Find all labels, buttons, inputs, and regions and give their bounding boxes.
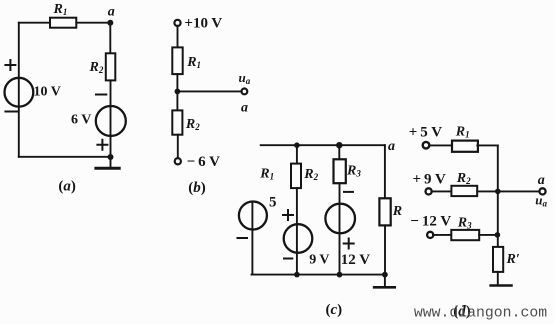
svg-text:(b): (b) [188,180,206,196]
ground bar (c) [374,286,395,289]
svg-text:www.diangon.com: www.diangon.com [414,305,547,321]
wire left side (a) [18,23,20,157]
svg-text:R2: R2 [303,167,318,182]
svg-text:R1: R1 [186,55,201,70]
wire R2 to 9V (c) [296,188,298,275]
svg-text:a: a [241,101,248,116]
ground stub (c) [384,275,386,287]
svg-text:(a): (a) [58,179,76,195]
voltage source 6V (a) circle [96,106,126,136]
svg-text:R1: R1 [259,167,274,182]
junction dot bus row2 (d) [495,189,501,195]
resistor R2 (d) box [451,186,477,196]
terminal -6V (b) [175,158,181,164]
wire R1 to R2 (b) [176,74,178,110]
resistor R2 (a) box [106,53,116,80]
resistor R2 (c) box [291,164,301,189]
svg-text:R2: R2 [456,171,471,186]
wire bottom bus (c) [252,274,385,276]
terminal a (d) [539,188,545,194]
wire R3 branch top (c) [338,145,340,159]
resistor R (c) box [379,198,390,225]
svg-text:R1: R1 [53,2,68,17]
wire terminal to R1 (b) [177,26,179,48]
voltage source 10V (a) circle [5,78,34,107]
svg-text:− 12 V: − 12 V [410,214,451,230]
svg-text:R1: R1 [455,125,470,140]
wire R3 to bus (d) [479,234,497,236]
node a (a) junction dot [107,20,113,26]
junction dot bottom R2 branch (c) [294,272,300,278]
wire R2 branch top (c) [296,145,298,163]
terminal -12V (d) [427,232,433,238]
wire terminal to R2 (d) [431,190,451,192]
svg-text:R′: R′ [506,252,520,267]
terminal +9V (d) [426,188,432,194]
svg-text:R3: R3 [346,164,361,179]
wire R2 through 6V source to bottom (a) [110,80,112,156]
svg-text:(c): (c) [326,302,343,318]
resistor R1 (b) box [172,47,182,74]
svg-text:+ 9 V: + 9 V [413,172,447,188]
junction dot top R2 branch (c) [294,142,300,148]
wire node a down to R (c) [384,145,386,198]
minus sign of 9V source (c) [284,258,292,260]
voltage source 5V (c) circle [239,202,267,230]
junction dot top R3 branch (c) [336,142,342,148]
svg-text:ua: ua [535,193,547,209]
wire bottom (a) [19,156,111,158]
svg-text:9 V: 9 V [309,252,329,267]
junction dot bottom R3 branch (c) [337,272,343,278]
resistor R2 (b) box [172,110,182,134]
resistor R3 (c) box [334,159,346,183]
svg-text:− 6 V: − 6 V [187,154,221,170]
plus sign of 6V source [97,140,107,150]
voltage source 12V (c) circle [325,204,355,234]
plus sign of 12V source (c) [344,239,354,249]
wire R2 to output terminal (d) [477,190,540,192]
wire through 5V source down (c) [251,202,253,275]
svg-text:ua: ua [239,70,251,86]
minus sign of 6V source [96,94,106,96]
ground bar (a) [96,167,119,170]
svg-text:12 V: 12 V [341,252,370,268]
resistor R1 (a) box [50,18,76,28]
plus sign of 9V source (c) [283,210,293,220]
wire top-right segment (a) [76,22,110,24]
plus sign of 10V source [5,60,15,70]
svg-text:6 V: 6 V [71,112,91,127]
wire node a down to R2 (a) [109,23,111,54]
svg-text:R: R [392,204,402,219]
wire R3 to 12V (c) [339,183,341,274]
junction node (b) [175,89,181,95]
svg-text:+ 5 V: + 5 V [409,124,443,140]
svg-text:R3: R3 [457,216,472,231]
terminal +5V (d) [423,142,430,149]
minus sign of 5V source (c) [238,237,248,239]
svg-text:a: a [388,139,395,154]
minus sign of 12V source (c) [344,191,353,193]
svg-text:10 V: 10 V [34,85,61,100]
wire R to bottom (c) [384,225,386,274]
resistor R1 (d) box [452,141,478,152]
junction dot bottom (a) [108,154,114,160]
ground stub (a) [110,157,112,168]
wire terminal to R3 (d) [433,234,451,236]
terminal +10V (b) [174,20,180,26]
wire R1 to bus (d) [477,144,498,146]
wire terminal to R1 (d) [429,144,452,146]
svg-text:a: a [108,5,115,20]
svg-text:a: a [538,173,545,188]
junction dot bus row3 (d) [495,232,501,238]
wire top bus (c) [261,144,385,146]
wire R' to ground (d) [497,272,499,285]
bus wire vertical (d) [497,145,499,247]
junction dot bottom right (c) [382,272,388,278]
svg-text:R2: R2 [185,117,200,132]
svg-text:+10 V: +10 V [184,16,222,32]
voltage source 9V (c) circle [284,224,313,253]
wire top-left segment (a) [19,22,50,24]
minus sign of 10V source [5,111,17,113]
wire R2 to bottom terminal (b) [177,135,179,159]
ground bar (d) [491,284,512,287]
wire to output terminal (b) [177,90,241,92]
svg-text:5: 5 [269,195,277,211]
resistor R' (d) box [493,247,503,272]
svg-text:R2: R2 [89,60,104,75]
resistor R3 (d) box [451,230,479,240]
terminal a (b) [242,89,248,95]
